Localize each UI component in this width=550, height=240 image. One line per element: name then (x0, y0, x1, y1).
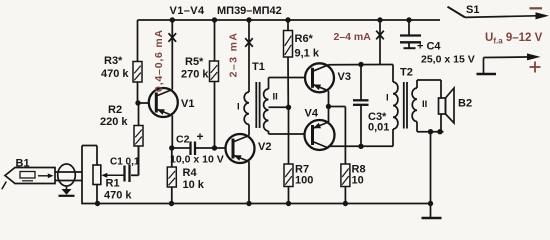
svg-text:0,01: 0,01 (368, 122, 389, 134)
label minus terminal (red) (530, 7, 543, 9)
wire T2 primary bottom (392, 129, 394, 146)
resistor R8 10 (341, 164, 350, 204)
junction dot R6-rail (285, 17, 290, 22)
label T1 winding I (237, 102, 240, 113)
svg-text:S1: S1 (466, 4, 479, 16)
svg-text:V3: V3 (338, 71, 351, 83)
label T2 winding I (386, 93, 389, 104)
wire V1 collector to rail (171, 20, 173, 90)
junction dot V1 emitter node (169, 145, 174, 150)
wire V3 emitter to midpoint (328, 91, 330, 107)
junction dot R5 bottom (212, 145, 217, 150)
transistor V2 (driver) (226, 134, 255, 163)
label S1 (466, 4, 479, 16)
loudspeaker B2 (439, 88, 455, 123)
label R5* (185, 56, 204, 68)
label R6 value (295, 48, 320, 60)
label T2 winding II (422, 99, 427, 110)
label R1 value 470k (104, 190, 132, 202)
label R4 (183, 167, 198, 179)
svg-text:R2: R2 (108, 104, 122, 116)
svg-text:0,4–0,6 mA: 0,4–0,6 mA (153, 29, 165, 92)
label T1 winding II (273, 92, 278, 103)
shielded cable ellipse (58, 164, 76, 186)
svg-text:T2: T2 (400, 67, 413, 79)
junction dot speaker bottom (437, 129, 442, 134)
label transistor type МП39-МП42 (217, 5, 282, 17)
transformer T2 primary winding I (393, 82, 398, 129)
junction dot T1 feed-rail (246, 17, 251, 22)
label V1 (181, 98, 194, 110)
svg-text:C1 0,1: C1 0,1 (110, 157, 140, 168)
label R4 value (183, 179, 205, 191)
wire T2 sec top to speaker (417, 80, 441, 98)
svg-text:10: 10 (352, 175, 364, 187)
ground chassis of shield (59, 186, 75, 196)
label R3* (104, 55, 123, 67)
wire V2 collector to T1 primary (248, 125, 250, 136)
capacitor C4 25,0x15V (400, 20, 421, 48)
wire loop to R1 top (82, 146, 97, 166)
label B2 (458, 98, 472, 110)
svg-text:100: 100 (295, 175, 313, 187)
wire T2 primary top (392, 65, 394, 83)
transistor V3 (output, upper) (305, 63, 334, 92)
label 2-3 mA (rotated, red) (228, 32, 240, 78)
label V1-V4 (170, 5, 206, 17)
label V4 (305, 108, 319, 120)
svg-text:+ C4: + C4 (417, 41, 441, 53)
label C3 value (368, 122, 389, 134)
junction dot emitters midpoint (326, 104, 331, 109)
junction dot return-rail (428, 201, 433, 206)
label R7 (295, 164, 309, 176)
wire return to rail (430, 132, 432, 204)
junction dot C3 top (358, 62, 363, 67)
wire T1 primary feed (248, 20, 250, 92)
svg-text:I: I (237, 102, 240, 113)
junction dot C3 bottom (358, 144, 363, 149)
wire midpoint to R8 (329, 107, 346, 165)
label C4 value (421, 54, 475, 66)
svg-text:220 k: 220 k (100, 116, 128, 128)
wire V3 collector node (329, 64, 394, 66)
wire V4 emitter to midpoint (328, 107, 330, 123)
label R8 value (352, 175, 364, 187)
svg-text:2–4 mA: 2–4 mA (334, 31, 372, 43)
svg-text:470 k: 470 k (101, 68, 129, 80)
capacitor C1 0,1 (125, 165, 130, 183)
label plus terminal (red) (530, 62, 541, 73)
svg-text:C2: C2 (176, 134, 190, 146)
svg-text:V2: V2 (258, 141, 271, 153)
svg-text:+: + (197, 130, 204, 144)
svg-text:B2: B2 (458, 98, 472, 110)
junction dot R8-rail (343, 201, 348, 206)
wire T1 sec bottom to V4 base (269, 131, 313, 134)
label C1 0,1 (110, 157, 140, 168)
svg-text:T1: T1 (252, 61, 265, 73)
wire T1 center tap (269, 106, 289, 108)
svg-text:B1: B1 (16, 158, 30, 170)
capacitor C3 0,01 (353, 65, 369, 147)
label C3* (368, 111, 387, 123)
svg-text:V4: V4 (305, 108, 319, 120)
wire input riser (left vertical) (81, 146, 83, 205)
svg-text:V1–V4: V1–V4 (170, 5, 206, 17)
label C2 value (170, 154, 224, 166)
label R6* (295, 33, 314, 45)
svg-text:R5*: R5* (185, 56, 204, 68)
svg-text:R1: R1 (106, 178, 120, 190)
transformer T1 core (256, 82, 259, 128)
svg-text:R3*: R3* (104, 55, 123, 67)
junction dot R7-rail (286, 201, 291, 206)
svg-text:R4: R4 (183, 167, 198, 179)
svg-text:II: II (422, 99, 427, 110)
label V2 (258, 141, 271, 153)
wire top rail (138, 19, 441, 21)
junction dot V2 emitter-rail (246, 201, 251, 206)
wire B1 top output (55, 171, 82, 173)
svg-text:I: I (386, 93, 389, 104)
label C2 (176, 134, 190, 146)
svg-text:2–3 mA: 2–3 mA (228, 32, 240, 78)
wire C2 to V2 base (195, 147, 233, 149)
wire to minus terminal (465, 12, 549, 19)
wire C1 to R2 bottom (131, 146, 139, 175)
wire emitter to C2 (172, 147, 190, 149)
wire T1 sec top to V3 base (269, 78, 313, 90)
svg-text:МП39–МП42: МП39–МП42 (217, 5, 282, 17)
wire V1 emitter down (171, 116, 173, 149)
resistor R2 220k (134, 103, 143, 175)
svg-text:25,0 x 15 V: 25,0 x 15 V (421, 54, 475, 66)
svg-text:R6*: R6* (295, 33, 314, 45)
wire B1 bottom output (55, 180, 82, 182)
resistor R5 270k (210, 20, 219, 148)
label C2 plus (197, 130, 204, 144)
resistor R6 9,1k (284, 20, 293, 107)
transistor V4 (output, lower) (305, 120, 335, 150)
label 2-4 mA (red) (334, 31, 372, 43)
current break X 2-4mA (376, 31, 384, 40)
junction dot V1 collector-rail (170, 17, 175, 22)
junction dot V1 base node (135, 100, 140, 105)
svg-text:270 k: 270 k (181, 69, 209, 81)
label T2 (400, 67, 413, 79)
transformer T1 primary winding I (244, 92, 249, 125)
switch S1 blade (448, 7, 466, 18)
label R1 (106, 178, 120, 190)
plus terminal chassis (477, 53, 541, 74)
wire V1 base (138, 102, 156, 104)
transformer T2 core (404, 82, 407, 129)
svg-text:9,1 k: 9,1 k (295, 48, 320, 60)
wire V4 collector node (329, 145, 394, 147)
junction dot center tap / R6-R7 (286, 105, 291, 110)
label V3 (338, 71, 351, 83)
resistor R4 10k (167, 148, 176, 204)
label + C4 (417, 41, 441, 53)
wire bottom rail (82, 203, 431, 205)
resistor R3 470k (133, 20, 142, 103)
junction dot C4-rail (406, 17, 411, 22)
pickup B1 (crystal sound head) (2, 168, 55, 190)
svg-text:10 k: 10 k (183, 179, 205, 191)
svg-text:10,0 x 10 V: 10,0 x 10 V (170, 154, 224, 166)
wire R1 bottom to rail (96, 185, 98, 204)
svg-text:470 k: 470 k (104, 190, 132, 202)
junction dot supply branch-rail (377, 17, 382, 22)
label 0,4-0,6 mA (rotated, red) (153, 29, 165, 92)
R1 wiper arrow from C1 (101, 173, 124, 178)
label T1 (252, 61, 265, 73)
wire T2 sec bottom to speaker (417, 114, 444, 132)
svg-text:V1: V1 (181, 98, 194, 110)
transistor V1 (emitter follower) (149, 88, 178, 117)
label R7 value (295, 175, 313, 187)
ground symbol main (422, 204, 442, 219)
transformer T1 secondary winding II (264, 89, 269, 131)
svg-text:II: II (273, 92, 278, 103)
resistor R7 100 (284, 107, 293, 203)
label R2 (108, 104, 122, 116)
transformer T2 secondary winding II (412, 88, 417, 122)
current break X 0.4-0.6mA (169, 33, 177, 42)
current break X 2-3mA (245, 38, 253, 47)
wire V2 emitter to rail (248, 162, 250, 204)
label R8 (352, 164, 366, 176)
wire supply to collector node (379, 20, 381, 65)
label R5 value (181, 69, 209, 81)
junction dot R4-rail (169, 201, 174, 206)
label R3 value (101, 68, 129, 80)
junction dot output return (428, 129, 433, 134)
junction dot R5-rail (212, 17, 217, 22)
label B1 (16, 158, 30, 170)
label Uf.a 9-12 V (red) (485, 32, 543, 46)
capacitor C2 (191, 142, 196, 156)
potentiometer R1 470k body (93, 165, 101, 185)
label R2 value (100, 116, 128, 128)
junction dot R1-rail (95, 201, 100, 206)
